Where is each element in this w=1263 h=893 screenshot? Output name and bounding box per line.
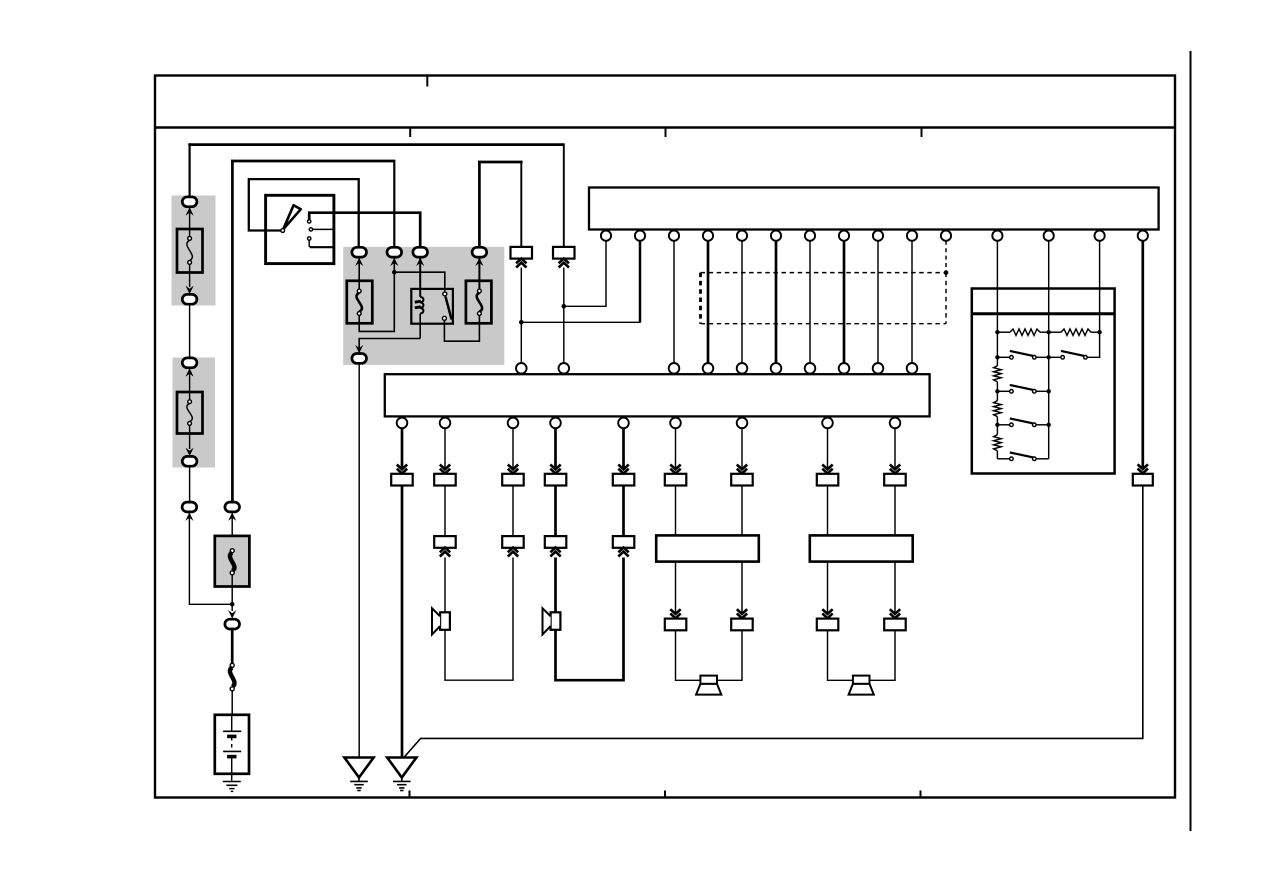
wire B left vertical bbox=[231, 160, 234, 501]
wire row2 to tweeter SP1 bbox=[444, 558, 446, 615]
U2 top pin 10 bbox=[907, 363, 918, 374]
wire amp out at x=742 bbox=[741, 562, 743, 613]
wire U1 to U2 at x=912 bbox=[911, 241, 913, 363]
fuse F1 box bbox=[177, 229, 203, 273]
U1 pin 2 bbox=[635, 231, 645, 241]
wire main to FL2 bbox=[231, 630, 234, 665]
U2 top pin 5 bbox=[737, 363, 748, 374]
arrow into relay oval 3 bbox=[416, 258, 424, 266]
tweeter SP1 loop bbox=[445, 558, 513, 681]
tick divider 3 bbox=[921, 128, 923, 137]
connector oval battery feed bbox=[225, 502, 240, 512]
wire J2 down to U2 pin bbox=[563, 268, 565, 364]
arrow into F1 top bbox=[186, 207, 194, 215]
arrow into connector at x=675.5 bbox=[670, 465, 680, 474]
wire contact 3 horizontal bbox=[310, 246, 334, 248]
page edge line right bbox=[1190, 51, 1192, 831]
arrow into F2 top bbox=[186, 368, 194, 376]
tick bottom 1 bbox=[409, 791, 411, 798]
fuse F3 element bbox=[356, 289, 361, 315]
wire U1 to U2 at x=674 bbox=[673, 241, 675, 363]
wire E horizontal bbox=[478, 161, 522, 164]
wire U2 pin down at x=623.5 bbox=[622, 428, 625, 468]
U2 top pin 6 bbox=[771, 363, 782, 374]
wire U1 pin15 down bbox=[1141, 241, 1144, 468]
connector row1 at x=675.5 bbox=[665, 474, 687, 486]
switch SW2-1 bbox=[997, 351, 1048, 359]
U1 pin 1 bbox=[601, 231, 611, 241]
switch SW2-2 bbox=[1049, 351, 1088, 359]
junction dot rail-L row2 bbox=[995, 389, 999, 393]
relay block oval 4 bbox=[472, 247, 487, 257]
arrow into connector at x=827.5 bbox=[822, 465, 832, 474]
U1 pin 15 bbox=[1138, 231, 1148, 241]
ignition switch lever bbox=[283, 205, 301, 229]
ignition switch pivot bbox=[281, 229, 285, 233]
arrow up into row2 connector at x=623.5 bbox=[618, 548, 628, 557]
junction dot rail-M row3 bbox=[1047, 423, 1051, 427]
junction dot rail-M row1 bbox=[1047, 355, 1051, 359]
U1 pin 13 bbox=[1044, 231, 1054, 241]
U2 bottom pin 6 bbox=[670, 418, 681, 429]
wire F2 bottom bbox=[189, 425, 191, 449]
speaker SP1 (tweeter) bbox=[432, 608, 450, 634]
connector row1 at x=445 bbox=[434, 474, 456, 486]
wire left branch down bbox=[189, 513, 230, 605]
U1 pin 3 bbox=[669, 231, 679, 241]
arrow into main oval bbox=[228, 610, 236, 618]
U2 top pin 7 bbox=[805, 363, 816, 374]
steering switch SW2 box bbox=[972, 289, 1115, 474]
wire battery feed into FL box bbox=[231, 513, 233, 550]
shield dashed box bbox=[701, 273, 947, 324]
tick divider 1 bbox=[409, 128, 411, 137]
U2 top pin 2 bbox=[559, 363, 570, 374]
wire oval3 to relay coil bbox=[419, 258, 421, 297]
wire row1 to row2 at x=513 bbox=[512, 485, 514, 536]
ignition switch SW1 box bbox=[266, 195, 334, 263]
wire U1 to U2 at x=776 bbox=[775, 241, 778, 363]
connector oval fuse F1 bottom bbox=[182, 294, 197, 304]
wire woofer SP4 left bbox=[828, 630, 853, 681]
connector woofer feed x=827.5 bbox=[817, 619, 839, 631]
U2 top pin 4 bbox=[703, 363, 714, 374]
speaker SP2 (tweeter) bbox=[543, 608, 561, 634]
U2 bottom pin 7 bbox=[737, 418, 748, 429]
U2 bottom pin 8 bbox=[822, 418, 833, 429]
wire relay coil to output oval bbox=[359, 339, 420, 353]
arrow into connector J14 bbox=[1138, 464, 1148, 473]
relay block output oval bbox=[352, 354, 367, 364]
fuse F2 box bbox=[177, 392, 203, 434]
tick bottom 3 bbox=[920, 791, 922, 798]
arrow into connector at x=513 bbox=[508, 465, 518, 474]
connector row1 at x=623.5 bbox=[613, 474, 635, 486]
U2 top pin 9 bbox=[873, 363, 884, 374]
tick bottom 2 bbox=[664, 791, 666, 798]
U1 pin 8 bbox=[839, 231, 849, 241]
arrow into relay oval 2 bbox=[390, 258, 398, 266]
arrow up into row2 connector at x=513 bbox=[508, 548, 518, 557]
wire U1 to U2 at x=878 bbox=[877, 241, 879, 363]
wire amp out at x=827.5 bbox=[827, 562, 829, 613]
arrow into connector at x=623.5 bbox=[618, 465, 628, 474]
radio receiver U1 box bbox=[589, 188, 1159, 230]
fuse F4 box bbox=[466, 281, 492, 324]
wire U2 pin down at x=742 bbox=[741, 428, 743, 468]
connector J2 (to radio) bbox=[553, 247, 575, 259]
arrow into relay oval 4 bbox=[475, 258, 483, 266]
wire A right vertical bbox=[563, 143, 565, 247]
wire A left vertical bbox=[189, 143, 191, 201]
arrow up into row2 connector at x=445 bbox=[440, 548, 450, 557]
junction dot J1 branch bbox=[519, 320, 524, 325]
frame border bbox=[155, 76, 1175, 798]
wire R1 to mid bbox=[1040, 331, 1049, 333]
wire U1 to U2 at x=810 bbox=[809, 241, 811, 363]
tweeter SP2 loop bbox=[556, 558, 624, 681]
arrow into F1 bottom oval bbox=[186, 286, 194, 294]
U1 pin 4 bbox=[703, 231, 713, 241]
speaker SP3 (woofer) bbox=[696, 676, 721, 695]
resistor R1 bbox=[1010, 329, 1040, 335]
battery box bbox=[215, 715, 249, 774]
relay block highlight bbox=[343, 247, 504, 365]
wire U2 pin down at x=827.5 bbox=[827, 428, 829, 468]
connector row1 at x=827.5 bbox=[817, 474, 839, 486]
fusible link FL1 box bbox=[215, 536, 250, 587]
wire row1 to row2 at x=623.5 bbox=[622, 485, 625, 536]
switch SW2-3 bbox=[997, 385, 1048, 393]
connector row1 at x=402 bbox=[391, 474, 413, 486]
wire R2 stubs bbox=[1049, 331, 1061, 333]
wire U2 pin down at x=675.5 bbox=[675, 428, 677, 468]
fuse F4 element bbox=[477, 289, 482, 315]
U1 pin 10 bbox=[907, 231, 917, 241]
wire R1 stubs bbox=[997, 331, 1010, 333]
shield dashed wire from U1 pin 11 bbox=[945, 241, 947, 273]
relay block oval 3 bbox=[413, 247, 428, 257]
connector oval left branch bbox=[182, 502, 197, 512]
wire to ground G2 bbox=[401, 485, 404, 758]
wire woofer SP4 right bbox=[870, 630, 896, 681]
arrow into J2 bbox=[559, 259, 569, 268]
amplifier U2 box bbox=[385, 374, 930, 416]
wire FL1 to junction bbox=[231, 575, 233, 611]
wire U2 pin down at x=555.5 bbox=[554, 428, 557, 468]
resistor R2 bbox=[1061, 329, 1091, 335]
U1 pin 6 bbox=[771, 231, 781, 241]
U2 top pin 3 bbox=[669, 363, 680, 374]
connector row2 at x=555.5 bbox=[545, 536, 567, 548]
wire FL2 to battery bbox=[231, 691, 233, 716]
tick top edge bbox=[426, 76, 428, 87]
speaker SP4 (woofer) bbox=[849, 676, 874, 695]
ground G2 bbox=[387, 758, 416, 791]
wire U2 to amp A2 right bbox=[894, 485, 896, 537]
fusible link FL1 element bbox=[230, 549, 235, 575]
U1 pin 9 bbox=[873, 231, 883, 241]
ignition contact 2 bbox=[309, 228, 312, 231]
wire row1 to row2 at x=445 bbox=[444, 485, 446, 536]
arrow into connector at x=895 bbox=[890, 465, 900, 474]
connector oval main battery bbox=[225, 619, 240, 629]
connector row1 at x=555.5 bbox=[545, 474, 567, 486]
ignition contact 3 bbox=[308, 237, 311, 240]
arrow into woofer connector x=827.5 bbox=[822, 609, 832, 618]
frame title divider bbox=[155, 126, 1175, 128]
wire U2 to amp A2 left bbox=[827, 485, 829, 537]
fuse F3 box bbox=[347, 281, 373, 324]
arrow into relay oval 1 bbox=[355, 258, 363, 266]
resistor R4 bbox=[994, 401, 1002, 417]
wire junction to relay switch bbox=[394, 272, 445, 292]
U2 bottom pin 4 bbox=[550, 418, 561, 429]
wire oval2 to junction bbox=[393, 258, 395, 273]
SW2 header divider bbox=[972, 312, 1115, 315]
connector oval fuse F2 bottom bbox=[182, 456, 197, 466]
arrow into woofer connector x=895 bbox=[890, 609, 900, 618]
relay block oval 1 bbox=[352, 247, 367, 257]
connector row2 at x=445 bbox=[434, 536, 456, 548]
wire J1 down to U2 pin bbox=[520, 268, 522, 364]
arrow into connector at x=445 bbox=[440, 465, 450, 474]
wire E left vertical bbox=[478, 161, 481, 251]
arrow into relay output oval bbox=[355, 345, 363, 353]
junction dot rail-L row3 bbox=[995, 423, 999, 427]
wire F1 bottom bbox=[189, 264, 191, 287]
arrow into battery feed oval bbox=[228, 513, 236, 521]
wire amp out at x=895 bbox=[894, 562, 896, 613]
wire F2 down bbox=[189, 467, 191, 503]
wire oval4 to F4 bbox=[478, 258, 480, 290]
wire contact 2 bbox=[313, 228, 334, 230]
wire B horizontal bbox=[231, 160, 394, 163]
connector row1 at x=513 bbox=[502, 474, 524, 486]
amplifier A1 box bbox=[656, 535, 759, 561]
relay coil bbox=[415, 297, 424, 339]
wire E right vertical bbox=[520, 161, 522, 247]
wire J2 branch to U1 pin 1 bbox=[564, 241, 606, 306]
wire R2 to right bbox=[1091, 331, 1100, 333]
junction dot battery feed bbox=[230, 602, 235, 607]
wire U2 to amp A1 right bbox=[741, 485, 743, 537]
wire D ignition ACC bbox=[309, 213, 420, 251]
amplifier A2 box bbox=[810, 535, 913, 561]
wire oval1 to fuse F3 bbox=[358, 258, 360, 290]
wire F2 bbox=[189, 368, 191, 400]
wire C ignition feed bbox=[249, 179, 359, 251]
U1 pin 12 bbox=[992, 231, 1002, 241]
left rail bottom bend bbox=[997, 458, 1009, 460]
left rail segments bbox=[996, 332, 998, 459]
battery cells bbox=[223, 716, 241, 781]
battery ground bbox=[223, 782, 241, 792]
wire U1 to U2 at x=708 bbox=[707, 241, 710, 363]
wire relay output to ground G1 bbox=[358, 363, 360, 757]
U2 bottom pin 3 bbox=[508, 418, 519, 429]
U2 bottom pin 5 bbox=[618, 418, 629, 429]
switch SW2-4 bbox=[997, 418, 1048, 426]
wire F1 bbox=[189, 207, 191, 237]
junction dot rail-M row2 bbox=[1047, 389, 1051, 393]
U2 bottom pin 1 bbox=[397, 418, 408, 429]
connector oval fuse F1 top bbox=[182, 197, 197, 207]
arrow into F2 bottom oval bbox=[186, 448, 194, 456]
arrow into connector at x=402 bbox=[397, 465, 407, 474]
relay R1 box bbox=[411, 289, 453, 324]
fusible link FL2 element bbox=[230, 663, 235, 691]
wire U2 pin down at x=513 bbox=[512, 428, 514, 468]
wire U1 pin2 stub thick bbox=[639, 241, 642, 322]
wire amp out at x=675.5 bbox=[675, 562, 677, 613]
connector woofer feed x=742 bbox=[731, 619, 753, 631]
arrow into left branch oval bbox=[185, 513, 193, 521]
junction dot rail-L R-row bbox=[995, 330, 999, 334]
connector row1 at x=742 bbox=[731, 474, 753, 486]
arrow into J1 bbox=[516, 259, 526, 268]
connector woofer feed x=675.5 bbox=[665, 619, 687, 631]
wire J1 branch to U1 pin 2 bbox=[521, 241, 640, 322]
switch SW2-5 bbox=[1010, 452, 1049, 460]
resistor R5 bbox=[994, 435, 1002, 451]
U1 pin 14 bbox=[1095, 231, 1105, 241]
connector row2 at x=623.5 bbox=[613, 536, 635, 548]
wire row1 to row2 at x=555.5 bbox=[554, 485, 557, 536]
wire relay switch to fuse F4 bbox=[444, 315, 479, 341]
fuse F1 highlight bbox=[172, 196, 216, 306]
arrow up into row2 connector at x=555.5 bbox=[550, 548, 560, 557]
junction dot relay bbox=[392, 270, 397, 275]
ground G1 bbox=[344, 758, 373, 791]
wire U1 pin13 to SW2 mid rail bbox=[1048, 241, 1050, 459]
wire woofer SP3 left bbox=[676, 630, 701, 681]
wire row2 to tweeter SP2 bbox=[554, 558, 557, 615]
U2 bottom pin 2 bbox=[440, 418, 451, 429]
junction dot J2 branch bbox=[562, 304, 567, 309]
U1 pin 11 bbox=[941, 231, 951, 241]
connector woofer feed x=895 bbox=[884, 619, 906, 631]
wire B right vertical bbox=[393, 160, 395, 251]
arrow into connector at x=742 bbox=[737, 465, 747, 474]
wire U1 pin14 to SW2 right rail bbox=[1087, 241, 1099, 357]
wire J14 to ground run bbox=[404, 485, 1143, 758]
connector J1 (to radio) bbox=[511, 247, 533, 259]
connector oval fuse F2 top bbox=[182, 358, 197, 368]
junction dot rail-L row1 bbox=[995, 355, 999, 359]
relay block oval 2 bbox=[387, 247, 402, 257]
fuse F2 element bbox=[187, 400, 192, 425]
arrow into woofer connector x=675.5 bbox=[670, 609, 680, 618]
junction dot rail-R R-row bbox=[1097, 330, 1101, 334]
wire F1 to F2 bbox=[189, 305, 191, 359]
U1 pin 7 bbox=[805, 231, 815, 241]
wire A horizontal top bbox=[188, 143, 564, 146]
arrow into woofer connector x=742 bbox=[737, 609, 747, 618]
arrow into connector at x=555.5 bbox=[550, 465, 560, 474]
shield junction dot bbox=[944, 270, 949, 275]
wire woofer SP3 right bbox=[717, 630, 742, 681]
wire contact 3 bbox=[309, 240, 311, 247]
resistor R3 bbox=[994, 366, 1002, 382]
wire U2 pin down at x=402 bbox=[401, 428, 404, 468]
wire U2 to amp A1 left bbox=[675, 485, 677, 537]
wire U2 pin down at x=445 bbox=[444, 428, 446, 468]
wire U2 pin down at x=895 bbox=[894, 428, 896, 468]
tick divider 2 bbox=[665, 128, 667, 137]
connector J14 bbox=[1133, 474, 1153, 486]
wire U1 to U2 at x=844 bbox=[843, 241, 846, 363]
ignition contact 1 bbox=[308, 220, 311, 223]
fuse F1 element bbox=[187, 237, 192, 265]
U2 bottom pin 9 bbox=[890, 418, 901, 429]
connector row1 at x=895 bbox=[884, 474, 906, 486]
wire U1 to U2 at x=742 bbox=[741, 241, 743, 363]
relay switch contacts bbox=[442, 292, 451, 320]
U2 top pin 1 bbox=[516, 363, 527, 374]
U2 top pin 8 bbox=[839, 363, 850, 374]
wire F3 bottom to junction rail bbox=[359, 272, 394, 331]
wire U1 pin12 to SW2 bbox=[996, 241, 998, 332]
junction dot rail-M R-row bbox=[1047, 330, 1051, 334]
connector row2 at x=513 bbox=[502, 536, 524, 548]
fuse F2 highlight bbox=[173, 358, 216, 468]
U1 pin 5 bbox=[737, 231, 747, 241]
